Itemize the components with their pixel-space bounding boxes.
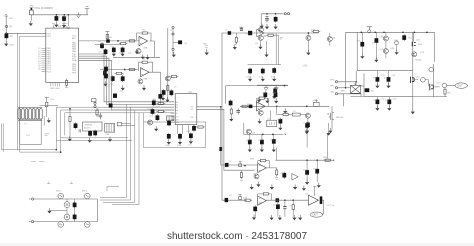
capacitor C63 [260,134,264,149]
resistor R22 [281,113,290,115]
capacitor C4 [5,32,9,39]
capacitor C48 [395,40,399,51]
capacitor C50 [376,71,380,85]
cap marks [79,129,80,132]
bead on bus b [109,103,113,107]
power arrow VCC2 [264,85,268,91]
ground railA corner [260,23,264,28]
svg-text:EN: EN [175,113,178,115]
ground Q6a [258,44,262,49]
OUT oval 2 [310,212,322,217]
resistor Rv above U4 [96,108,98,116]
ground R16 [229,116,233,121]
resistor R32 vertical [240,171,243,181]
ground C48 [395,50,399,55]
wire left loop outer [17,33,56,149]
capacitor C6 [112,47,116,54]
svg-text:PD0: PD0 [47,33,52,35]
capacitor C52 [376,97,380,108]
node dot feed [244,165,246,167]
resistor R16 [230,107,232,115]
svg-text:R8: R8 [448,93,452,95]
capacitor C60 [276,200,280,217]
wire J3 low [172,50,174,54]
svg-text:7805: 7805 [418,44,423,46]
wire drop at 68 [67,15,69,26]
svg-text:MIC1: MIC1 [56,191,62,193]
capacitor C55 [282,172,286,179]
ground mid c [302,186,306,191]
capacitor C22 [167,133,171,140]
wire R11 [40,106,59,117]
svg-text:OUT: OUT [457,84,463,88]
resistor R14 [156,103,165,105]
flag resistor on chain [239,195,242,200]
svg-text:R29: R29 [243,198,248,200]
wire long vertical [167,28,169,102]
capacitor C44 [306,121,310,128]
svg-text:Q16: Q16 [416,77,421,79]
capacitor C32 [236,108,240,114]
node dot [67,14,69,16]
ground C61 [278,215,282,220]
U1 left pin stubs [42,48,46,71]
capacitor C36 [274,16,278,23]
op-amp U9 output [308,195,318,205]
svg-text:22: 22 [38,69,41,71]
capacitor C51 [387,71,391,85]
op-amp U8 [258,196,267,205]
ground C23 [178,139,182,144]
node dot R12 [69,108,71,110]
small box right [117,123,121,126]
connector J4 pin1 [330,79,342,83]
svg-text:IN: IN [10,26,13,29]
wire rail F [346,31,435,33]
potentiometer RV1 [314,100,320,107]
resistor R18 [235,36,237,44]
ground mid b [293,184,297,189]
capacitor C40 [272,67,276,74]
svg-text:C27: C27 [149,116,154,118]
svg-text:IN3: IN3 [175,107,179,109]
U1 left pin names [47,33,52,73]
bottom light band [0,243,474,246]
transistor Q3 [138,79,143,84]
ground cluster b [265,98,269,103]
IC U4 small box [83,122,102,131]
ground audio b [88,138,92,143]
wire mic right [96,199,98,222]
source V2 [85,193,91,199]
capacitor Cv above U4 [99,113,103,119]
capacitor C27 [151,108,155,115]
capacitor C7 [121,47,125,54]
wire J4 pin1 run [338,81,357,83]
node dot [275,13,277,15]
svg-text:R9: R9 [143,59,147,61]
dark bar element [320,196,323,204]
wire lower input rail [95,43,121,45]
mosfet Q11 [327,106,334,130]
svg-text:XTAL 16.000MHz: XTAL 16.000MHz [34,7,53,10]
ground C39 [261,76,265,81]
svg-text:OUT: OUT [312,213,318,217]
wire rail G [357,70,413,72]
ground C60 [270,215,274,220]
node dot [345,87,347,89]
wire mic gnd stub [49,209,67,211]
svg-text:PD1: PD1 [47,36,52,38]
node dot loop b [60,151,62,153]
ground J stack [4,41,8,46]
svg-text:BR1: BR1 [341,91,346,93]
wire power section left vert [363,73,365,96]
node dot [413,31,415,33]
connector J3 pin1 [172,26,174,28]
op-amp U5 [257,102,266,111]
feedback loop wire 2 [139,62,153,72]
wire mic top [35,198,97,200]
resistor R15 [156,110,165,112]
node dot [262,134,264,136]
ground C38 [248,76,252,81]
svg-text:10u: 10u [188,145,192,147]
capacitor C64 [272,134,276,149]
svg-text:C48: C48 [390,48,395,50]
svg-text:C61: C61 [289,206,294,208]
ground C35 [265,24,269,29]
capacitor C56 [305,160,309,181]
ground C36 [274,24,278,29]
capacitor C47 [375,32,379,59]
capacitor C39 [261,68,265,75]
wire riser mic 1 [100,104,126,197]
transistor Q7 [306,33,311,52]
bead on rail [106,39,110,42]
svg-text:GND GND: GND GND [50,88,60,90]
IC U2 body [175,94,197,125]
ground Q11 [328,128,332,133]
capacitor C49 [402,34,406,41]
resistor R5 [167,84,169,92]
svg-text:R2: R2 [125,41,129,43]
wire vert from rail b [355,71,357,82]
wire left drop [356,32,358,70]
capacitor C41 [263,91,267,98]
capacitor C23 [178,133,182,140]
capacitor C28 [156,114,160,121]
bead on wire down [219,147,222,151]
svg-text:C51: C51 [392,75,397,77]
wire rail I [275,159,331,161]
U2 left pin names [175,102,180,124]
capacitor C16 [162,89,166,96]
wire audio block bottom a [56,140,132,142]
ground Q7 [306,50,310,55]
net stub mid [205,46,209,48]
ground near U2 top b [165,97,169,102]
ground below Y1 [29,21,33,26]
wire rail A top [261,13,283,15]
node dot J stack [5,32,7,34]
wire Y1 to rail [30,15,32,21]
transistor Q8 [327,33,332,46]
ground C1 [54,22,58,27]
wire riser mic 3 [103,110,135,203]
connector J2 pin [5,25,7,27]
svg-text:GND: GND [9,45,14,47]
wire audio loop a [56,106,174,108]
svg-text:IRF540: IRF540 [336,117,344,119]
svg-text:Q8: Q8 [332,38,336,40]
svg-text:+5V: +5V [303,65,308,68]
resistor network RN1 [105,124,115,133]
svg-text:C26: C26 [152,99,157,101]
svg-text:NV-06C: NV-06C [415,60,423,62]
power arrow VCC3 [274,85,278,91]
ground Q9 [258,119,262,124]
rail A end pins [284,13,286,15]
resistor R17 flag [239,27,243,30]
antenna flag [85,7,89,15]
transistor Q5 [258,27,263,32]
mark below resv [65,87,68,89]
wire rail E [240,105,329,107]
node dot [360,31,362,33]
svg-text:R4: R4 [143,30,147,32]
ground audio c [108,137,112,142]
ground C53 [387,106,391,111]
svg-text:LM386N: LM386N [84,124,92,126]
watermark text [0,231,474,242]
capacitor C11 [103,70,107,77]
svg-text:VS: VS [191,117,194,119]
ground C50 [375,83,379,88]
resistor circle R24 [442,83,447,88]
wire rail D [257,84,288,86]
svg-text:R14: R14 [156,107,161,109]
wire opamp2 input rail [100,69,138,71]
node dot loop a [55,149,57,151]
node dot [355,81,357,83]
resistor circle R23 [421,78,426,83]
labels fuzz layer [9,17,451,208]
node dot [276,105,278,107]
svg-text:IN2: IN2 [175,104,179,106]
wire top rail [31,14,88,16]
svg-text:IN4: IN4 [175,110,179,112]
wire bus MCU to U2 line2 [79,56,175,104]
wire U9 up [313,186,316,196]
capacitor C5 [100,42,104,49]
connector J3 pin2 [172,33,174,35]
chain below rail E [277,106,306,114]
ground mid b2 [270,184,274,189]
wire bridge outputs [361,85,365,87]
wire audio loop b [61,109,174,111]
svg-text:100n: 100n [177,145,183,147]
svg-text:C4: C4 [10,35,14,38]
wire stub down [244,123,252,134]
small marks right of cluster [280,38,283,40]
resistor R10 [170,76,179,78]
inline bead chain [276,198,280,202]
relay box K1 [267,120,277,127]
wire J4 pin2 run [338,87,351,89]
ground Q3 [142,85,146,90]
wire opamp2 out [149,72,160,104]
wire far-left stubs [2,124,18,153]
wire bus MCU to U2 line3 [79,58,175,107]
svg-text:MIC2: MIC2 [82,191,88,193]
node dot [316,159,318,161]
ground out vert [411,109,415,114]
svg-text:GND: GND [175,122,180,124]
transistor Q13 [383,41,388,58]
svg-text:470u: 470u [408,38,412,40]
source V1 [58,193,64,199]
ground C59 [252,215,256,220]
wire R12 column [69,109,71,138]
svg-text:L3: L3 [229,195,232,197]
op-amp small U7 [292,174,298,180]
wire q16 chain [425,80,428,86]
ground C2 [62,22,66,27]
svg-text:LS1: LS1 [26,135,31,137]
svg-text:U3A: U3A [143,47,148,50]
resistor R28 arrow out [323,159,334,161]
ground stem right [327,123,331,136]
ground R11 [47,118,51,123]
node dot [277,199,279,201]
svg-text:R3: R3 [109,37,113,39]
resistor R25 [444,87,446,95]
svg-text:10u: 10u [110,84,114,86]
speaker box [20,119,41,144]
svg-text:SPK+: SPK+ [330,79,336,81]
node dot [292,199,294,201]
wire bus MCU to U2 line4 [79,60,175,110]
capacitor C34 [73,214,77,221]
capacitor C13 [121,75,125,82]
transistor Q4 [148,120,153,125]
ground extra [298,215,302,220]
node dot [56,14,58,16]
node dot [284,85,286,87]
node dot [266,13,268,15]
svg-text:10u: 10u [128,53,132,55]
resistor R20 [240,105,249,107]
capacitor C43 inline bead [249,105,253,109]
ground C6 [112,51,116,56]
svg-text:100n: 100n [101,56,107,58]
transistor Q9 [258,110,263,115]
transistor Q12 [383,32,388,41]
svg-text:C3: C3 [72,19,76,21]
svg-text:C47: C47 [372,43,377,45]
resistor R2 [119,43,128,45]
ground C62 [248,147,252,152]
ground top row [135,49,139,54]
wire vert pair [276,33,278,65]
capacitor C14 on out [158,93,162,100]
feedback resistor R26 [259,160,268,162]
ground cluster c [274,98,278,103]
svg-text:PE4: PE4 [72,72,77,74]
feedback resistor R9 [140,61,149,63]
wire opamp1 input rail [79,40,139,42]
mic terminal 1 [29,198,36,200]
wire to OUT [447,84,455,86]
ground J3 [172,52,176,57]
wire rail B mid [222,32,319,34]
svg-text:Q5: Q5 [255,43,259,45]
capacitor C33 [73,202,77,209]
capacitor C38 [248,68,252,75]
capacitor C18 on bus [104,73,108,80]
wire left loop inner [20,36,61,152]
svg-text:AUDIO: AUDIO [84,126,91,129]
crystal box X2 [292,113,300,116]
ground C52 [375,106,379,111]
resistor R11 with flag [45,97,49,107]
node dot [117,40,119,42]
wire U2 right out2 [197,109,255,170]
grounds row mid [250,184,254,189]
feedback loop wire 4 [258,161,270,168]
node dot [284,199,286,201]
ground mic [47,208,51,213]
rail A end pin b [288,13,290,15]
U2 right pin names [191,107,195,119]
resistor R12 [69,115,71,123]
wire rail C [248,64,281,66]
rail B opamp triangle [257,29,264,37]
ground R18 [233,44,237,49]
ground Q18 [256,182,260,187]
svg-text:PC3: PC3 [47,71,52,73]
box around U2 bottom [144,122,206,148]
svg-text:C25: C25 [186,131,191,133]
svg-text:DAT: DAT [175,118,180,121]
source V3 [58,222,64,228]
resistor R13 [196,126,205,128]
svg-text:C1: C1 [57,17,61,19]
node dot [220,106,222,108]
U1 left outside pin numbers [38,48,41,71]
capacitor C17 on bus [104,66,108,73]
capacitor C37 inline bead [248,31,252,35]
wire stub right of box [43,116,45,126]
small box P2 [92,99,97,102]
wire J4 to rail [343,94,345,107]
capacitor C19 [74,122,78,129]
transistor Q2 on out line [165,76,170,81]
transformer T1 [18,108,42,121]
svg-text:U9: U9 [305,194,309,196]
op-amp U3A [139,36,148,45]
node dot [63,14,65,16]
capacitor C1 [55,15,59,22]
resistor R3 pullup [105,32,109,39]
svg-text:GND: GND [330,91,335,93]
oscillator Y1 [30,10,34,15]
mic M1 [64,202,70,208]
wire Q6 down [261,41,267,54]
bead on bus a [113,94,117,98]
node dot [306,105,308,107]
